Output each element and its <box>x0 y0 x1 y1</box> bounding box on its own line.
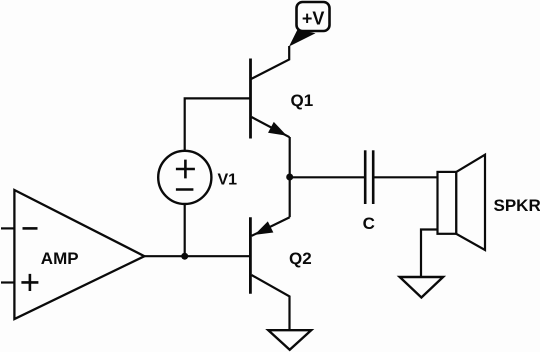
svg-text:AMP: AMP <box>41 249 79 268</box>
AMP plus mark <box>21 274 38 291</box>
V1 plus mark <box>176 160 195 179</box>
AMP minus mark <box>23 227 38 230</box>
wire V1 top to Q1 base <box>185 98 251 150</box>
wire V1 bottom to node <box>184 204 186 256</box>
AMP inverting input stub <box>1 227 14 229</box>
transistor Q1 emitter arrow <box>269 123 286 135</box>
svg-text:SPKR: SPKR <box>494 196 540 215</box>
junction dot AMP output node <box>181 253 188 260</box>
power flag +V box <box>297 2 330 31</box>
speaker body rect <box>438 172 457 234</box>
wire Q1 emitter to output node <box>289 137 291 177</box>
op-amp AMP triangle <box>14 190 144 319</box>
V1 minus mark <box>176 188 194 191</box>
wire output node to capacitor <box>290 176 365 178</box>
wire AMP output to Q2 base <box>144 255 250 257</box>
power flag wedge connector <box>289 30 316 47</box>
junction dot output node <box>286 174 293 181</box>
speaker cone <box>456 155 485 250</box>
svg-text:Q1: Q1 <box>291 91 314 110</box>
wire capacitor to speaker <box>374 176 437 178</box>
wire speaker to ground <box>421 230 438 277</box>
transistor Q1 emitter line <box>252 117 290 137</box>
AMP non-inverting input stub <box>1 281 14 283</box>
svg-text:C: C <box>363 214 375 233</box>
capacitor C left plate <box>364 150 367 204</box>
wire Q2 collector to ground <box>252 275 290 330</box>
svg-text:+V: +V <box>302 8 325 28</box>
transistor Q2 base bar <box>249 217 252 294</box>
wire Q1 collector to +V <box>251 46 289 79</box>
voltage source V1 circle <box>158 151 211 204</box>
transistor Q2 emitter arrow <box>256 222 273 234</box>
transistor Q1 base bar <box>249 59 252 139</box>
transistor Q2 emitter line <box>252 217 290 236</box>
capacitor C right plate <box>372 150 375 204</box>
wire output node to Q2 emitter <box>289 177 291 217</box>
svg-text:Q2: Q2 <box>289 249 312 268</box>
ground under Q2 <box>268 330 311 350</box>
svg-text:V1: V1 <box>218 171 238 188</box>
ground under speaker <box>400 277 443 298</box>
